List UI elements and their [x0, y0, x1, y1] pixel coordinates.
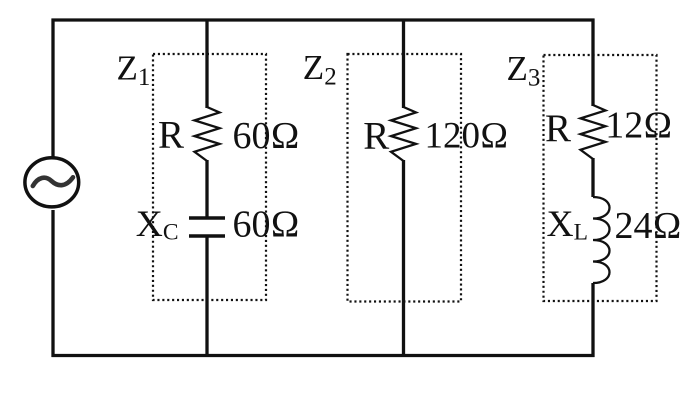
svg-text:R: R [363, 115, 389, 158]
resistor R (branch 3) [581, 105, 606, 159]
wire: branch 1 lower [205, 238, 208, 358]
svg-text:120Ω: 120Ω [425, 116, 509, 157]
svg-text:60Ω: 60Ω [233, 115, 300, 157]
wire: left vertical lower [51, 210, 54, 357]
wire: left vertical upper [51, 19, 54, 158]
impedance box Z2 (dotted outline) [348, 54, 462, 302]
wire: branch 3 upper [591, 19, 594, 107]
svg-text:XC: XC [136, 204, 179, 246]
impedance box Z1 (dotted outline) [153, 54, 266, 300]
svg-text:12Ω: 12Ω [605, 105, 672, 147]
wire: branch 2 upper [402, 19, 405, 109]
wire: top bus [52, 18, 595, 21]
svg-text:Z2: Z2 [303, 48, 337, 91]
svg-text:60Ω: 60Ω [233, 204, 300, 246]
svg-text:XL: XL [547, 204, 588, 246]
svg-text:Z3: Z3 [507, 49, 541, 92]
resistor R (branch 1) [195, 107, 220, 161]
voltage source V1 [25, 158, 79, 207]
wire: branch 3 lower [591, 283, 594, 357]
impedance box Z3 (dotted outline) [544, 55, 657, 301]
inductor XL (branch 3) [593, 197, 610, 283]
wire: bottom bus [52, 354, 595, 357]
svg-text:24Ω: 24Ω [615, 205, 682, 247]
svg-text:R: R [158, 114, 184, 157]
wire: branch 3 middle [591, 158, 594, 197]
capacitor XC (branch 1) [189, 218, 225, 236]
svg-text:R: R [545, 107, 571, 150]
wire: branch 1 upper [205, 19, 208, 109]
svg-text:Z1: Z1 [117, 49, 151, 92]
wire: branch 2 lower [402, 160, 405, 357]
resistor R (branch 2) [391, 107, 416, 161]
wire: branch 1 middle [205, 160, 208, 217]
